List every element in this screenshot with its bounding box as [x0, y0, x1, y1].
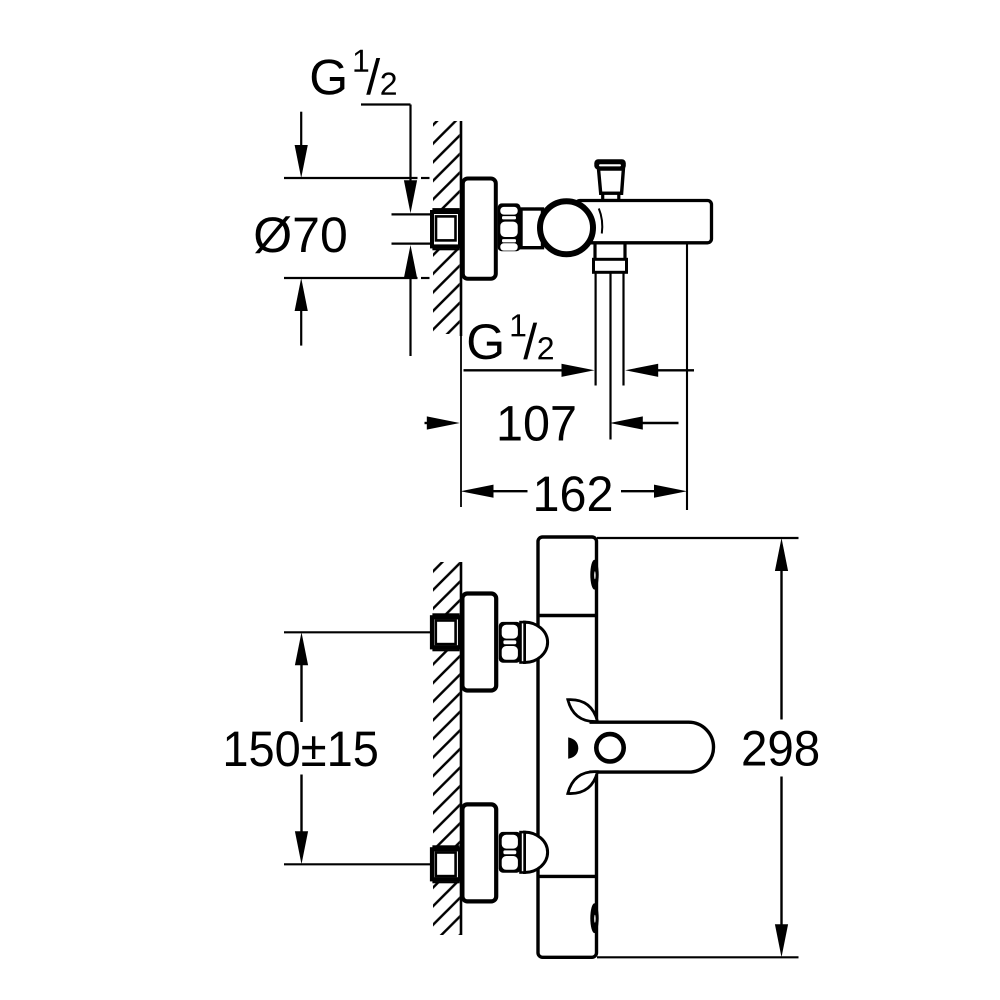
svg-text:162: 162 [533, 466, 614, 522]
svg-text:Ø70: Ø70 [253, 207, 347, 263]
svg-text:G: G [466, 314, 505, 370]
svg-text:G: G [309, 49, 348, 105]
svg-text:/: / [366, 49, 380, 105]
svg-text:298: 298 [741, 721, 820, 777]
svg-text:107: 107 [496, 396, 577, 452]
svg-text:150±15: 150±15 [222, 721, 378, 777]
svg-text:/: / [523, 314, 537, 370]
svg-text:2: 2 [537, 330, 555, 366]
svg-text:2: 2 [380, 66, 398, 102]
